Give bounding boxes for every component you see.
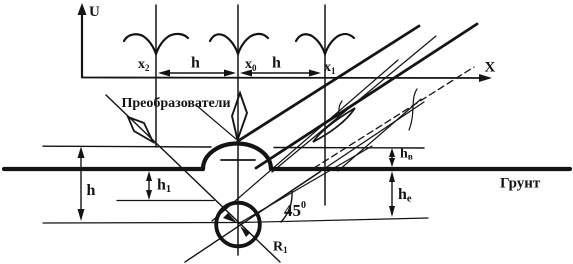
leaf transducer at x1 along beam bbox=[313, 108, 355, 142]
hump (half ellipse on ground over pipe) bbox=[203, 144, 271, 169]
svg-text:h: h bbox=[87, 182, 96, 199]
chord line inside hump bbox=[221, 159, 255, 161]
svg-text:h: h bbox=[272, 55, 281, 72]
thick beam line L1 from hump top to upper right bbox=[238, 26, 419, 141]
break mark across beam 2 bbox=[409, 89, 417, 130]
ray through left transducer (45 deg down to pipe center) bbox=[106, 95, 280, 262]
svg-text:x2: x2 bbox=[138, 57, 150, 73]
pipe top line (h1 base) bbox=[117, 200, 214, 202]
svg-text:hв: hв bbox=[400, 147, 413, 163]
leader line from label to center transducer bbox=[196, 105, 236, 139]
dimension h (left) bbox=[78, 147, 85, 222]
signal cusp curve at x0 bbox=[210, 34, 268, 54]
svg-text:X: X bbox=[485, 60, 496, 76]
center transducer diamond at x0 bbox=[232, 93, 247, 140]
svg-text:R1: R1 bbox=[273, 240, 288, 256]
svg-text:450: 450 bbox=[284, 200, 306, 220]
dimension arrow h between x2 and x0 bbox=[158, 70, 236, 77]
surface line left (top of h_v layer) bbox=[43, 145, 211, 148]
45 degree ray from pipe center bbox=[238, 146, 372, 224]
thin beam line d from ground bbox=[338, 99, 421, 171]
thick beam line L2 from hump base to upper right bbox=[256, 24, 477, 168]
pipe circle bbox=[216, 203, 260, 247]
dimension h_e (right lower) bbox=[389, 171, 395, 217]
svg-text:Грунт: Грунт bbox=[500, 176, 541, 192]
radius arrow to center from NW bbox=[223, 213, 237, 223]
45 degree arc bbox=[281, 191, 292, 222]
radius arrow to center from SE bbox=[240, 226, 250, 237]
break mark across beam bbox=[335, 101, 342, 121]
thin beam line b (extension of pipe diagonal) bbox=[185, 102, 424, 262]
bottom dimension line through pipe center bbox=[43, 218, 428, 223]
dimension h_v (right upper) bbox=[389, 148, 395, 167]
dashed refracted ray to X axis bbox=[314, 67, 474, 168]
svg-text:he: he bbox=[398, 186, 412, 205]
svg-text:Преобразователи: Преобразователи bbox=[122, 96, 231, 111]
svg-text:x0: x0 bbox=[245, 57, 257, 73]
surface line right (top of h_v layer) bbox=[274, 147, 424, 150]
thin beam line a (axis of x1 leaf) bbox=[272, 36, 436, 172]
left transducer diamond at x2 bbox=[128, 117, 153, 142]
X axis bbox=[82, 74, 492, 82]
svg-text:h: h bbox=[191, 55, 200, 72]
signal cusp curve at x2 bbox=[124, 34, 188, 54]
dimension h1 bbox=[146, 171, 152, 200]
pipe diagonal NE-SW bbox=[185, 172, 320, 262]
ground line left segment bbox=[4, 167, 203, 171]
signal cusp curve at x1 bbox=[296, 34, 354, 54]
vertical line x0 bbox=[237, 5, 239, 255]
vertical line x1 bbox=[324, 5, 326, 205]
svg-text:h1: h1 bbox=[157, 177, 171, 196]
svg-text:U: U bbox=[89, 4, 100, 20]
thin beam line c bbox=[212, 60, 398, 221]
U axis bbox=[78, 3, 87, 77]
svg-text:x1: x1 bbox=[324, 60, 336, 76]
dimension arrow h between x0 and x1 bbox=[240, 70, 321, 77]
ground line right segment bbox=[271, 167, 570, 171]
vertical line x2 bbox=[155, 5, 157, 147]
